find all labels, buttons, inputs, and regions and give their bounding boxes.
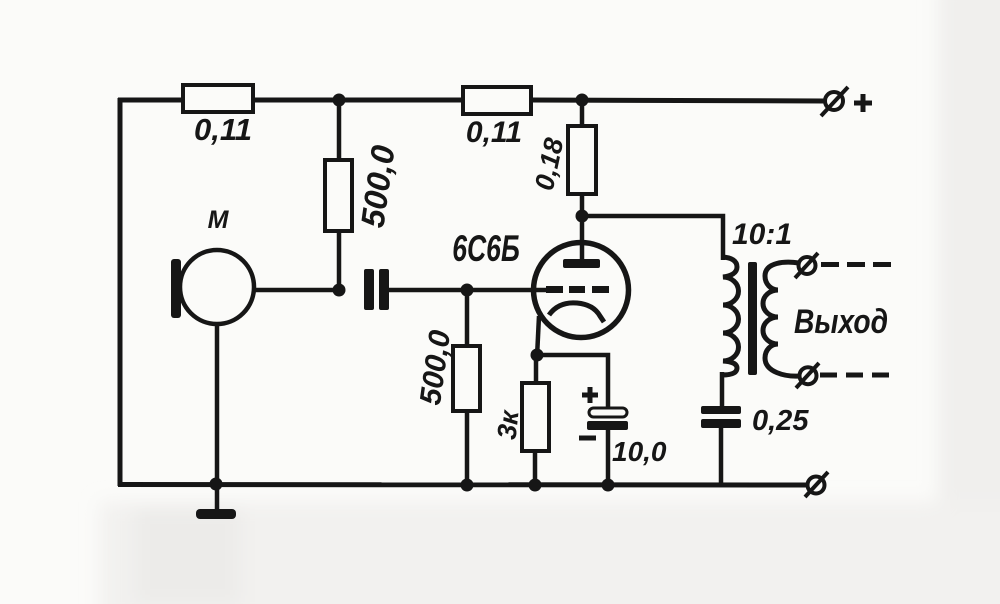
resistor R6 — [522, 383, 549, 451]
svg-text:0,25: 0,25 — [752, 405, 809, 437]
wire R5 to bottom rail — [465, 411, 470, 486]
node cathode junction — [531, 349, 544, 362]
wire node B to R4 — [580, 100, 585, 128]
terminal +supply — [821, 87, 848, 116]
tube V1 envelope — [534, 243, 629, 338]
svg-text:0,11: 0,11 — [194, 112, 252, 147]
resistor R5 — [453, 346, 480, 411]
wire microphone to ground — [215, 322, 220, 486]
wire anode node to transformer — [582, 216, 723, 260]
resistor R3 — [463, 87, 531, 114]
label C2 plus sign — [582, 387, 598, 403]
tube V1 anode — [563, 259, 600, 268]
node bottom junction 1 — [461, 479, 474, 492]
svg-text:0,11: 0,11 — [466, 116, 522, 149]
wire cathode junction to R6 — [534, 355, 539, 385]
node bottom junction 2 — [529, 479, 542, 492]
wire R2 to node J2 — [337, 231, 342, 292]
svg-text:6С6Б: 6С6Б — [452, 228, 520, 269]
label plus sign — [854, 94, 872, 112]
microphone M — [171, 250, 254, 324]
wire J3 to R5 — [465, 290, 470, 348]
capacitor C2 electrolytic — [587, 408, 628, 430]
tube V1 grid dashes — [546, 286, 609, 293]
wire anode lead — [580, 216, 585, 260]
node ground junction — [210, 478, 223, 491]
tube V1 cathode — [549, 303, 604, 322]
resistor R1 — [183, 85, 253, 112]
capacitor C3 — [701, 406, 741, 428]
svg-text:10,0: 10,0 — [612, 436, 667, 467]
resistor R4 — [568, 126, 596, 194]
wire cathode junction to C2 — [537, 355, 608, 410]
transformer T1 secondary winding — [763, 262, 800, 376]
wire dashed output top — [821, 262, 892, 267]
terminal bottom — [805, 472, 828, 497]
wire R6 to bottom rail — [533, 451, 538, 486]
node J2 junction — [333, 284, 346, 297]
resistor R2 — [325, 160, 352, 231]
svg-text:М: М — [208, 206, 230, 234]
wire left rail — [118, 98, 123, 486]
wire top rail segment 2 — [252, 98, 464, 103]
node anode junction — [576, 210, 589, 223]
node B top junction — [576, 94, 589, 107]
wire C1 to grid — [388, 288, 548, 293]
wire C2 to bottom rail — [606, 428, 611, 486]
svg-text:Выход: Выход — [794, 302, 888, 340]
wire R4 to anode node — [580, 194, 585, 218]
wire dashed output bottom — [820, 373, 890, 378]
label C2 minus sign — [579, 436, 596, 441]
transformer T1 core — [748, 262, 757, 375]
wire top rail segment 1 — [118, 98, 185, 103]
wire microphone to node J2 — [252, 288, 341, 293]
svg-text:3к: 3к — [492, 408, 525, 441]
terminal output top — [795, 253, 818, 278]
node bottom junction 3 — [602, 479, 615, 492]
wire primary to C3 — [720, 372, 725, 408]
node A top junction — [333, 94, 346, 107]
transformer T1 primary winding — [722, 257, 739, 375]
ground — [196, 484, 236, 519]
terminal output bottom — [796, 363, 819, 388]
capacitor C1 coupling — [364, 269, 389, 310]
wire C3 to bottom rail — [719, 427, 724, 486]
node J3 grid junction — [461, 284, 474, 297]
wire cathode lead — [537, 316, 539, 357]
svg-text:10:1: 10:1 — [732, 218, 792, 251]
wire bottom rail — [118, 482, 807, 488]
wire node A to R2 — [337, 100, 342, 162]
wire top rail segment 3 — [530, 100, 824, 101]
